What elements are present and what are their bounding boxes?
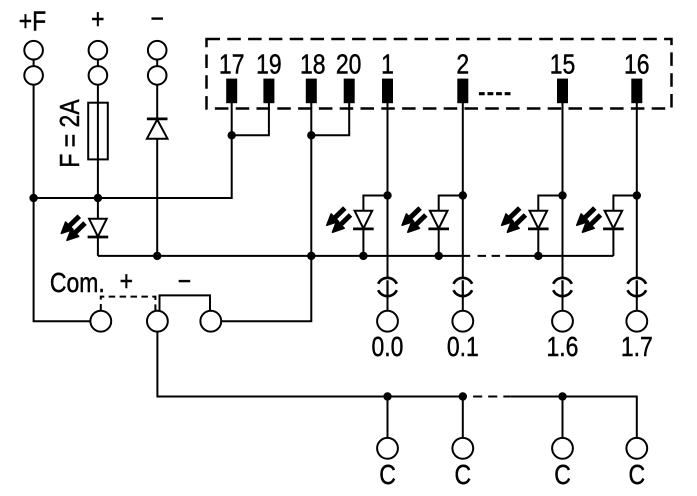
junction + column on + rail xyxy=(94,194,102,202)
terminal circle 0.0 xyxy=(377,311,398,332)
clamp contact 0.0 xyxy=(378,278,397,296)
Com + terminal circle xyxy=(147,311,168,332)
wire branch to LED 0.0 xyxy=(363,196,387,211)
svg-text:0.1: 0.1 xyxy=(447,332,479,363)
pin 1 xyxy=(382,79,393,104)
wire LED 1.6 to minus rail xyxy=(537,229,539,256)
wire branch to LED 1.6 xyxy=(538,196,562,211)
svg-text:F = 2A: F = 2A xyxy=(55,99,86,168)
svg-text:19: 19 xyxy=(256,49,282,80)
wire clamp to terminal 1.7 xyxy=(636,296,638,310)
clamp contact 1.7 xyxy=(628,278,647,296)
terminal +F lower circle xyxy=(24,66,43,85)
fuse F=2A body xyxy=(88,103,108,160)
junction minus column on rail xyxy=(153,252,161,260)
solid link + to minus terminal xyxy=(160,295,211,310)
wire clamp to terminal 1.6 xyxy=(562,296,564,310)
C terminal circle 3 xyxy=(552,438,573,459)
terminal + upper circle xyxy=(89,41,108,60)
svg-text:15: 15 xyxy=(550,49,576,80)
wire pin 17 down and left along + rail xyxy=(34,103,232,198)
wire + terminal to fuse xyxy=(97,85,99,103)
terminal +F upper circle xyxy=(24,41,43,60)
junction C rail 3 xyxy=(558,392,566,400)
junction 18/20 line on rail xyxy=(307,252,315,260)
wire between minus circles xyxy=(156,60,158,67)
dashed link Com to + terminal xyxy=(101,297,156,311)
svg-text:0.0: 0.0 xyxy=(372,332,404,363)
diode cathode bar xyxy=(147,118,168,121)
wire diode to minus rail xyxy=(156,139,158,256)
pin 15 xyxy=(557,79,568,104)
junction LED 0.1 on rail xyxy=(435,252,443,260)
Com minus terminal circle xyxy=(200,311,221,332)
junction +F on + rail xyxy=(29,194,37,202)
svg-text:−: − xyxy=(150,4,163,35)
wire branch to LED 1.7 xyxy=(613,196,636,211)
svg-text:C: C xyxy=(455,460,472,491)
clamp contact 0.1 xyxy=(454,278,473,296)
svg-text:1.6: 1.6 xyxy=(547,332,579,363)
wire pin 19 to node with pin 17 xyxy=(232,103,269,135)
svg-text:1: 1 xyxy=(381,49,394,80)
wire C rail to C terminal 2 xyxy=(462,397,464,438)
dashes between pin 2 and pin 15 xyxy=(479,92,511,95)
wire LED 0.0 to minus rail xyxy=(362,229,364,256)
junction pins 18/20 xyxy=(307,131,315,139)
diode triangle xyxy=(147,120,168,139)
svg-text:−: − xyxy=(178,266,191,297)
wire Com + terminal down to C rail xyxy=(157,332,467,397)
wire pin 16 down to clamp xyxy=(636,103,638,278)
wire pin 20 to node with pin 18 xyxy=(311,103,349,135)
wire C rail to C terminal 3 xyxy=(562,397,564,438)
wire C rail to C terminal 1 xyxy=(387,397,389,438)
svg-text:2: 2 xyxy=(456,49,469,80)
LED indicator on + line xyxy=(61,216,108,240)
svg-text:+: + xyxy=(120,266,133,297)
LED 0.0 xyxy=(327,208,374,232)
wire minus terminal to diode xyxy=(156,85,158,119)
minus rail dashed continuation xyxy=(478,255,512,257)
pin 17 xyxy=(226,79,237,104)
junction pin 2 branch xyxy=(459,191,467,199)
svg-text:Com.: Com. xyxy=(50,268,105,299)
C rail dashed continuation xyxy=(473,396,510,398)
svg-text:C: C xyxy=(554,460,571,491)
LED 1.7 xyxy=(577,208,624,232)
clamp contact 1.6 xyxy=(553,278,572,296)
minus rail left solid part xyxy=(98,255,470,257)
wire clamp to terminal 0.0 xyxy=(387,296,389,310)
pin 20 xyxy=(344,79,355,104)
terminal circle 1.6 xyxy=(552,311,573,332)
junction C rail 1 xyxy=(383,392,391,400)
junction pins 17/19 xyxy=(228,131,236,139)
svg-text:18: 18 xyxy=(300,49,326,80)
svg-text:16: 16 xyxy=(624,49,650,80)
wire through fuse xyxy=(97,103,99,160)
wire pin 15 down to clamp xyxy=(562,103,564,278)
pin 16 xyxy=(631,79,642,104)
svg-text:+: + xyxy=(91,4,104,35)
wire between + circles xyxy=(97,60,99,67)
wire LED 1.7 to minus rail end xyxy=(612,229,614,256)
svg-text:1.7: 1.7 xyxy=(621,332,653,363)
wire fuse to LED anode xyxy=(97,159,99,218)
junction LED 1.6 on rail xyxy=(534,252,542,260)
wire clamp to terminal 0.1 xyxy=(462,296,464,310)
terminal minus lower circle xyxy=(148,66,167,85)
wire pin 18 down to Com minus terminal xyxy=(221,103,311,321)
dashed connector outline box xyxy=(207,39,672,109)
C rail right part down to C terminal 4 xyxy=(510,397,637,438)
svg-text:C: C xyxy=(629,460,646,491)
pin 18 xyxy=(306,79,317,104)
junction pin 16 branch xyxy=(633,191,641,199)
terminal minus upper circle xyxy=(148,41,167,60)
junction C rail 2 xyxy=(459,392,467,400)
wire pin 2 down to clamp xyxy=(462,103,464,278)
C terminal circle 1 xyxy=(377,438,398,459)
terminal circle 0.1 xyxy=(452,311,473,332)
junction pin 1 branch xyxy=(383,191,391,199)
svg-text:17: 17 xyxy=(219,49,245,80)
junction LED 0.0 on rail xyxy=(359,252,367,260)
Com terminal circle xyxy=(90,311,111,332)
LED 1.6 xyxy=(502,208,549,232)
minus rail right solid part xyxy=(512,255,613,257)
wire LED 0.1 to minus rail xyxy=(438,229,440,256)
C terminal circle 4 xyxy=(626,438,647,459)
terminal circle 1.7 xyxy=(626,311,647,332)
pin 19 xyxy=(263,79,274,104)
wire LED cathode down to minus rail corner xyxy=(97,237,99,256)
svg-text:+F: +F xyxy=(19,6,46,37)
terminal + lower circle xyxy=(89,66,108,85)
C terminal circle 2 xyxy=(452,438,473,459)
wire +F vertical down to Com rail xyxy=(34,85,91,322)
LED 0.1 xyxy=(402,208,449,232)
wire between +F circles xyxy=(33,60,35,67)
svg-text:20: 20 xyxy=(336,49,362,80)
pin 2 xyxy=(457,79,468,104)
wire pin 1 down to clamp xyxy=(387,103,389,278)
junction pin 15 branch xyxy=(558,191,566,199)
svg-text:C: C xyxy=(379,460,396,491)
wire branch to LED 0.1 xyxy=(439,196,463,211)
